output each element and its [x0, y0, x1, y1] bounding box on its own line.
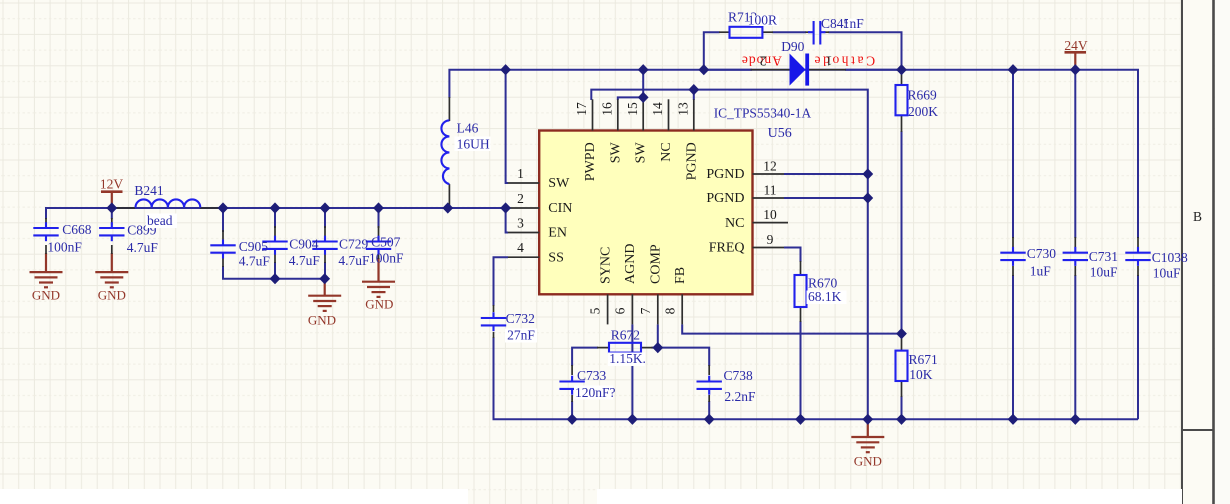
- svg-text:R671: R671: [909, 352, 938, 367]
- node COMP R672: [652, 342, 663, 353]
- pin C905 bottom: [222, 256, 224, 267]
- wire 24V stem: [1074, 53, 1076, 70]
- node 24V C731 tap: [1070, 64, 1081, 75]
- node C507 tap: [373, 202, 384, 213]
- wire AGND pin6 drop: [631, 324, 633, 419]
- wire C845 to output node: [829, 32, 902, 69]
- wire SS pin4 to C732: [494, 257, 509, 306]
- node GND rail: [862, 414, 873, 425]
- pin B241 left: [113, 207, 135, 209]
- svg-text:10: 10: [763, 207, 777, 222]
- svg-text:2: 2: [760, 53, 767, 68]
- svg-text:GND: GND: [32, 288, 60, 303]
- wire input rail 12V net: [46, 208, 506, 218]
- pin 11 PGND stub: [753, 197, 785, 199]
- wire C738 bottom: [708, 401, 710, 419]
- wire C904 bottom: [274, 262, 276, 279]
- capacitor C899: [99, 222, 124, 241]
- pin 10 NC stub: [753, 222, 789, 224]
- node R671 gnd: [896, 414, 907, 425]
- svg-text:Cathode: Cathode: [812, 54, 875, 69]
- wire C899 gnd stem: [111, 253, 113, 272]
- power port 12V: [100, 176, 124, 191]
- node C730 gnd: [1008, 414, 1019, 425]
- svg-text:SW: SW: [608, 142, 623, 164]
- svg-text:SW: SW: [548, 176, 570, 191]
- resistor R672: [609, 343, 641, 353]
- pin C845 right: [824, 31, 830, 33]
- resistor R671: [896, 351, 908, 381]
- wire GND stem bottom rail: [867, 419, 869, 437]
- node pin11 PGND: [862, 192, 873, 203]
- node C904 tap: [270, 202, 281, 213]
- node C738 gnd: [704, 414, 715, 425]
- svg-text:100R: 100R: [748, 13, 777, 28]
- svg-text:PGND: PGND: [706, 191, 744, 206]
- svg-text:7: 7: [638, 307, 653, 314]
- pin R670 top: [800, 261, 802, 275]
- pin C899 bottom: [111, 245, 113, 254]
- node AGND gnd: [627, 414, 638, 425]
- svg-text:C668: C668: [62, 222, 92, 237]
- ground symbol input caps: [308, 296, 341, 311]
- svg-text:GND: GND: [98, 288, 126, 303]
- wire C731 top drop: [1074, 70, 1076, 238]
- wire C904 drop: [274, 208, 276, 228]
- label C899: [127, 222, 159, 255]
- node C729 gnd: [319, 273, 330, 284]
- wire C905 drop: [222, 208, 224, 232]
- pin C738 top: [708, 365, 710, 375]
- svg-text:NC: NC: [725, 216, 744, 231]
- svg-text:NC: NC: [659, 142, 674, 161]
- wire pin12 PGND: [784, 173, 868, 175]
- svg-text:PGND: PGND: [684, 142, 699, 180]
- pin 12 PGND stub: [753, 173, 785, 175]
- pin C1038 top: [1137, 237, 1139, 247]
- svg-text:6: 6: [613, 307, 628, 314]
- wire R712 branch riser: [704, 32, 720, 69]
- wire R712 to C845: [773, 31, 807, 33]
- node C905 tap: [218, 202, 229, 213]
- wire pin7 COMP drop: [657, 324, 659, 347]
- node CIN pin2: [500, 202, 511, 213]
- wire C668 gnd stem: [45, 253, 47, 272]
- wire SW pins riser: [642, 70, 644, 100]
- svg-text:B241: B241: [134, 183, 163, 198]
- capacitor C507: [366, 236, 391, 255]
- svg-text:PGND: PGND: [706, 167, 744, 182]
- svg-text:12: 12: [763, 159, 777, 174]
- svg-text:C905: C905: [239, 239, 269, 254]
- resistor R669: [896, 85, 908, 115]
- ground symbol C899: [95, 272, 128, 287]
- svg-text:8: 8: [663, 307, 678, 314]
- node L46 bottom: [442, 202, 453, 213]
- svg-text:C733: C733: [577, 368, 607, 383]
- capacitor C733: [559, 376, 584, 395]
- pin 13 PGND stub: [693, 99, 695, 130]
- svg-text:13: 13: [676, 102, 691, 116]
- node SW pin16: [638, 92, 649, 103]
- svg-text:2: 2: [517, 191, 524, 206]
- svg-text:D90: D90: [781, 39, 804, 54]
- svg-text:L46: L46: [457, 121, 479, 136]
- label R712: [728, 9, 779, 27]
- pin 16 SW stub: [617, 99, 619, 130]
- label C732: [505, 311, 537, 343]
- svg-text:12V: 12V: [100, 176, 124, 191]
- pin R712 left: [719, 31, 730, 33]
- pin R671 bottom: [901, 381, 903, 397]
- node output C845 R669: [896, 64, 907, 75]
- pin C1038 bottom: [1137, 266, 1139, 276]
- inductor L46: [441, 120, 449, 184]
- node pin12 PGND: [862, 168, 873, 179]
- pin 7 COMP stub: [657, 294, 659, 324]
- pin 14 NC stub: [668, 99, 670, 130]
- wire C668 drop: [45, 208, 47, 219]
- pin 4 SS stub: [508, 256, 539, 258]
- white strip below sheet: [0, 489, 1182, 504]
- pin R669 bottom: [901, 115, 903, 132]
- node C733 gnd: [567, 414, 578, 425]
- svg-text:16UH: 16UH: [457, 137, 490, 152]
- pin 5 SYNC stub: [607, 294, 609, 324]
- svg-text:1nF: 1nF: [843, 16, 865, 31]
- pin L46 bottom: [448, 184, 450, 207]
- svg-text:R669: R669: [908, 88, 938, 103]
- label R669: [908, 88, 939, 120]
- label C733: [574, 368, 616, 400]
- svg-text:C729: C729: [339, 237, 369, 252]
- wire R672 right junction: [652, 347, 658, 349]
- label R670: [807, 276, 847, 305]
- capacitor C668: [33, 222, 58, 241]
- node FB divider: [896, 328, 907, 339]
- wire L46 riser and top rail 24V net: [449, 70, 1138, 238]
- svg-text:B: B: [1193, 209, 1202, 224]
- capacitor C730: [1000, 247, 1025, 266]
- pin 2 CIN stub: [508, 207, 539, 209]
- label C904: [289, 237, 321, 268]
- pin C738 bottom: [708, 395, 710, 402]
- label L46: [455, 121, 491, 152]
- wire C1038 bottom: [1137, 275, 1139, 419]
- diode D90: [790, 54, 810, 86]
- svg-text:1uF: 1uF: [1030, 263, 1052, 278]
- svg-text:GND: GND: [854, 454, 882, 469]
- capacitor C731: [1063, 247, 1088, 266]
- wire junction to C738: [658, 348, 709, 366]
- pin C899 top: [111, 218, 113, 225]
- pin C731 bottom: [1074, 266, 1076, 276]
- svg-text:C507: C507: [371, 234, 401, 249]
- svg-text:10uF: 10uF: [1153, 266, 1181, 281]
- wire R671 bottom: [901, 396, 903, 419]
- svg-text:C738: C738: [724, 368, 754, 383]
- svg-text:100nF: 100nF: [47, 239, 82, 254]
- svg-text:IC_TPS55340-1A: IC_TPS55340-1A: [714, 105, 812, 120]
- capacitor C729: [312, 236, 337, 255]
- svg-text:4.7uF: 4.7uF: [127, 240, 159, 255]
- wire R669 to R671 vertical FB node: [901, 131, 903, 334]
- svg-text:C730: C730: [1027, 246, 1057, 261]
- pin C733 top: [571, 365, 573, 375]
- node SW riser: [638, 64, 649, 75]
- pin C731 top: [1074, 237, 1076, 247]
- wire C733 bottom: [571, 401, 573, 419]
- capacitor C904: [262, 236, 287, 255]
- pin 6 AGND stub: [631, 294, 633, 324]
- ground symbol C668: [30, 272, 63, 287]
- power port 24V: [1064, 38, 1088, 53]
- label C507: [369, 234, 404, 265]
- svg-text:4.7uF: 4.7uF: [239, 254, 271, 269]
- wire C507 gnd stem: [377, 258, 379, 282]
- svg-text:SS: SS: [548, 250, 564, 265]
- pin 17 PWPD stub: [592, 99, 594, 130]
- node 12V C899: [106, 202, 117, 213]
- svg-text:15: 15: [625, 102, 640, 116]
- inductor bead B241: [136, 199, 201, 207]
- pin R672 right: [641, 347, 653, 349]
- svg-text:4: 4: [517, 240, 524, 255]
- label R671: [909, 352, 938, 382]
- wire pin11 PGND: [784, 197, 868, 199]
- pin C668 top: [45, 218, 47, 225]
- pin 1 SW stub: [508, 182, 539, 184]
- node SW top rail: [500, 64, 511, 75]
- node R712 branch: [698, 64, 709, 75]
- node C731 gnd: [1070, 414, 1081, 425]
- wire pin1 drop: [506, 70, 508, 183]
- capacitor C845 horizontal: [808, 21, 826, 45]
- resistor R670: [795, 275, 807, 307]
- pin L46 top: [448, 97, 450, 121]
- resistor R712: [730, 27, 763, 38]
- wire C507 drop: [378, 208, 380, 228]
- wire R672 left to C733: [572, 348, 598, 366]
- svg-text:4.7uF: 4.7uF: [338, 253, 370, 268]
- label C668: [47, 222, 91, 254]
- svg-text:bead: bead: [147, 213, 173, 228]
- pin 9 FREQ stub: [753, 247, 785, 249]
- pin C732 bottom: [493, 332, 495, 338]
- label C729: [338, 237, 370, 268]
- pin C507 top: [378, 226, 380, 238]
- svg-text:200K: 200K: [908, 104, 938, 119]
- wire pin16 tie: [618, 97, 643, 100]
- svg-text:C732: C732: [506, 311, 535, 326]
- svg-text:SW: SW: [634, 142, 649, 164]
- wire C730 bottom: [1012, 275, 1014, 419]
- wire C729 drop: [324, 208, 326, 228]
- pin R671 top: [901, 334, 903, 351]
- label bead: [146, 213, 177, 228]
- svg-text:3: 3: [517, 216, 524, 231]
- svg-text:CIN: CIN: [548, 201, 572, 216]
- svg-text:16: 16: [600, 102, 615, 116]
- wire C899 drop: [111, 208, 113, 219]
- wire diode left: [704, 69, 752, 71]
- pin C733 bottom: [571, 395, 573, 402]
- capacitor C732: [481, 312, 506, 331]
- svg-text:1: 1: [826, 53, 833, 68]
- svg-text:COMP: COMP: [649, 244, 664, 284]
- pin C507 bottom: [378, 252, 380, 259]
- pin 15 SW stub: [642, 99, 644, 130]
- pin C730 top: [1012, 237, 1014, 247]
- pin C729 bottom: [324, 252, 326, 263]
- wire PWPD PGND top net: [591, 90, 868, 420]
- pin D90 cathode: [809, 69, 846, 71]
- pin C905 top: [222, 230, 224, 242]
- node C729 tap: [320, 202, 331, 213]
- pin C730 bottom: [1012, 266, 1014, 276]
- svg-text:GND: GND: [365, 297, 393, 312]
- svg-text:AGND: AGND: [623, 244, 638, 284]
- svg-text:27nF: 27nF: [507, 328, 535, 343]
- label R672: [608, 328, 646, 367]
- wire FREQ pin9 to R670: [784, 248, 801, 263]
- label C1038: [1152, 250, 1188, 280]
- svg-text:C904: C904: [289, 237, 319, 252]
- pin R669 top: [901, 70, 903, 85]
- ground symbol C507: [362, 282, 395, 297]
- svg-text:1: 1: [517, 166, 524, 181]
- pin C732 top: [493, 305, 495, 312]
- svg-text:17: 17: [574, 102, 589, 116]
- svg-text:10K: 10K: [909, 367, 933, 382]
- pin C904 bottom: [274, 252, 276, 263]
- svg-text:C1038: C1038: [1152, 250, 1188, 265]
- wire C731 bottom: [1074, 275, 1076, 419]
- node R670 gnd: [795, 414, 806, 425]
- op-amp U56 IC body TPS55340: [539, 131, 752, 295]
- svg-text:100nF: 100nF: [369, 251, 404, 266]
- svg-text:EN: EN: [548, 226, 567, 241]
- svg-text:GND: GND: [308, 313, 336, 328]
- svg-text:PWPD: PWPD: [583, 142, 598, 181]
- wire caps gnd stem: [324, 279, 326, 296]
- node C730 tap: [1008, 64, 1019, 75]
- wire diode right to output: [845, 69, 902, 71]
- svg-text:14: 14: [650, 102, 665, 116]
- svg-text:4.7uF: 4.7uF: [289, 253, 321, 268]
- pin 8 FB stub: [681, 294, 683, 324]
- pin R670 bottom: [800, 307, 802, 322]
- label C731: [1089, 249, 1118, 279]
- svg-text:2.2nF: 2.2nF: [724, 389, 756, 404]
- pin C845 left: [806, 31, 811, 33]
- pin C668 bottom: [45, 245, 47, 254]
- wire pin13 tie: [693, 90, 695, 100]
- node pin13 tie: [688, 84, 699, 95]
- wire 12V stem: [111, 193, 113, 208]
- pin B241 right: [200, 207, 221, 209]
- wire C729 bottom: [324, 262, 326, 279]
- svg-text:68.1K: 68.1K: [808, 289, 842, 304]
- capacitor C905: [210, 240, 235, 259]
- wire R670 bottom: [800, 321, 802, 419]
- capacitor C1038: [1125, 247, 1150, 266]
- pin R672 left: [597, 347, 609, 349]
- pin C904 top: [274, 226, 276, 238]
- svg-text:9: 9: [767, 232, 774, 247]
- svg-text:5: 5: [588, 307, 603, 314]
- sheet border zone B: [1182, 0, 1230, 504]
- wire FB pin8: [682, 324, 901, 333]
- svg-text:24V: 24V: [1064, 38, 1088, 53]
- ground symbol bottom rail: [851, 437, 884, 452]
- pin R712 right: [762, 31, 773, 33]
- svg-text:120nF?: 120nF?: [575, 385, 616, 400]
- wire cap ground sub-rail: [223, 266, 325, 279]
- svg-text:FREQ: FREQ: [709, 241, 745, 256]
- label C905: [239, 239, 271, 269]
- label C738: [724, 368, 757, 404]
- pin C729 top: [324, 226, 326, 238]
- svg-text:10uF: 10uF: [1090, 265, 1118, 280]
- svg-text:SYNC: SYNC: [598, 247, 613, 284]
- svg-text:11: 11: [764, 183, 777, 198]
- node C904 gnd: [270, 273, 281, 284]
- wire pin2 to pin3: [506, 208, 508, 233]
- capacitor C738: [697, 376, 722, 395]
- wire ground bottom rail: [494, 337, 1139, 419]
- svg-text:R672: R672: [611, 328, 640, 343]
- svg-text:U56: U56: [768, 126, 792, 141]
- label C845: [821, 16, 864, 31]
- pin D90 anode: [751, 69, 790, 71]
- svg-text:1.15K.: 1.15K.: [609, 351, 646, 366]
- svg-text:FB: FB: [673, 267, 688, 284]
- label C730: [1027, 246, 1057, 278]
- svg-text:C731: C731: [1089, 249, 1118, 264]
- pin 3 EN stub: [508, 232, 539, 234]
- wire C730 top drop: [1012, 70, 1014, 238]
